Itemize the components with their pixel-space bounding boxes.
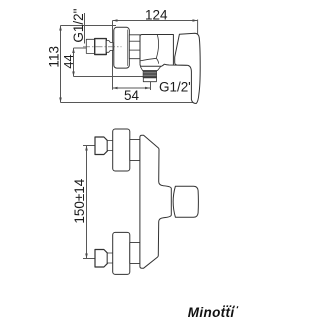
dimension 44 bottom extension (74, 76, 151, 78)
lower body connector (130, 243, 140, 264)
valve body (140, 35, 173, 65)
dimension 54 line (113, 87, 151, 90)
valve body underside sweep (140, 64, 187, 66)
body underside inner contour (140, 58, 156, 61)
wall plate (114, 27, 130, 68)
outlet thread (143, 71, 157, 78)
lower escutcheon (113, 232, 130, 274)
handle knob end view (173, 186, 198, 217)
svg-text:150±14: 150±14 (72, 178, 87, 223)
body front contour arc (156, 35, 158, 64)
inlet step (106, 41, 113, 53)
lower union step (107, 253, 113, 263)
svg-text:113: 113 (46, 46, 61, 68)
dimension 44 line (72, 48, 75, 77)
mixer body front view (140, 135, 171, 268)
upper union step (107, 140, 113, 150)
svg-text:Minotti: Minotti (188, 305, 235, 320)
outlet pipe end (143, 78, 156, 82)
svg-text:44: 44 (61, 54, 76, 68)
upper escutcheon (113, 129, 130, 171)
outlet flare (140, 66, 161, 70)
wall plate inner edge (127, 30, 129, 66)
svg-text:G1/2": G1/2" (159, 80, 193, 95)
inlet nut (95, 39, 107, 55)
lower union nut (95, 250, 107, 268)
dimension 124 right extension (197, 20, 199, 44)
upper body connector (130, 140, 140, 161)
inlet pipe tip (86, 39, 94, 53)
dimension 54 right extension (150, 78, 152, 90)
svg-text:54: 54 (124, 88, 140, 103)
dimension 113 top extension (61, 25, 117, 27)
dimension 113 bottom extension (61, 102, 194, 104)
dimension 124 left extension / wall line (112, 21, 114, 90)
handle blade (175, 33, 201, 103)
svg-text:G1/2": G1/2" (71, 8, 86, 42)
upper union nut (95, 137, 107, 155)
dimension 150±14 line (85, 146, 88, 259)
Minotti logo (188, 305, 239, 320)
dimension 113 line (59, 26, 62, 103)
body connector (129, 35, 140, 59)
svg-text:124: 124 (145, 7, 168, 22)
label G1/2 top leader line (84, 13, 86, 44)
dimension 44 top extension (74, 47, 87, 49)
dimension 124 line (113, 19, 198, 22)
dimension 150±14 top extension (83, 145, 95, 147)
body connector groove lines (129, 40, 140, 42)
inlet center line (83, 46, 122, 48)
dimension 150±14 bottom extension (83, 258, 95, 260)
outlet thread stripes (143, 72, 156, 74)
